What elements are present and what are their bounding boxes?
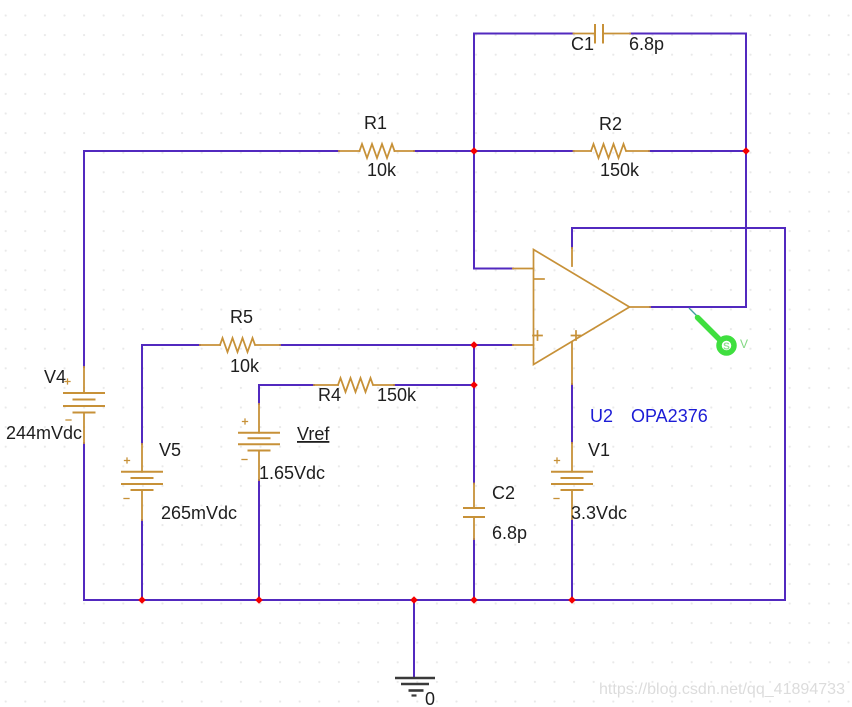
- wire C2 bottom: [473, 539, 475, 600]
- svg-text:10k: 10k: [367, 160, 397, 180]
- svg-text:C1: C1: [571, 34, 594, 54]
- wire R2 left: [474, 150, 574, 152]
- wire left rail upper (R1 left corner down to V4): [83, 151, 85, 367]
- node V5 bottom junction: [138, 596, 146, 604]
- wire R1 left: [84, 150, 339, 152]
- wire left rail lower (V4 to bottom rail): [83, 443, 85, 600]
- wire node 345 down to node 385 down to C2: [473, 345, 475, 484]
- svg-text:150k: 150k: [600, 160, 640, 180]
- svg-text:U2: U2: [590, 406, 613, 426]
- wire op-amp V- down to V1: [571, 384, 573, 443]
- node C2 bottom junction: [470, 596, 478, 604]
- wire R1 right to node: [414, 150, 474, 152]
- resistor R2: [574, 144, 650, 158]
- wire bottom ground rail: [84, 599, 785, 601]
- battery V1: [552, 443, 592, 519]
- resistor R4: [314, 378, 394, 392]
- capacitor C2: [464, 484, 484, 540]
- node V1 bottom junction: [568, 596, 576, 604]
- wire output feedback up to node: [650, 151, 746, 307]
- wire C1 branch right (C1 to node R2 right): [630, 34, 746, 152]
- svg-text:C2: C2: [492, 483, 515, 503]
- node R5 / +in junction: [470, 341, 478, 349]
- wire op-amp V+ to right rail: [572, 228, 785, 600]
- svg-text:R4: R4: [318, 385, 341, 405]
- svg-text:https://blog.csdn.net/qq_41894: https://blog.csdn.net/qq_41894733: [599, 681, 845, 698]
- wire R2 right: [649, 150, 746, 152]
- svg-text:1.65Vdc: 1.65Vdc: [259, 463, 325, 483]
- wire Vref bottom: [258, 480, 260, 600]
- wire C1 branch left (node to C1): [474, 34, 574, 152]
- battery V5: [122, 444, 162, 520]
- node R2 right / feedback junction: [742, 147, 750, 155]
- capacitor C1: [574, 25, 631, 43]
- svg-text:V5: V5: [159, 440, 181, 460]
- svg-text:244mVdc: 244mVdc: [6, 423, 82, 443]
- svg-text:OPA2376: OPA2376: [631, 406, 708, 426]
- svg-text:V: V: [740, 337, 748, 351]
- svg-text:10k: 10k: [230, 356, 260, 376]
- wire V1 bottom: [571, 519, 573, 600]
- svg-text:S: S: [723, 342, 730, 353]
- node ground junction: [410, 596, 418, 604]
- svg-text:R5: R5: [230, 307, 253, 327]
- svg-text:265mVdc: 265mVdc: [161, 503, 237, 523]
- svg-text:0: 0: [425, 689, 435, 707]
- wire node to non-inverting input: [474, 344, 513, 346]
- svg-text:V4: V4: [44, 367, 66, 387]
- op-amp U2: [513, 248, 650, 384]
- svg-text:V1: V1: [588, 440, 610, 460]
- battery V4: [64, 367, 104, 443]
- node R1/R2 junction: [470, 147, 478, 155]
- wire V5 bottom: [141, 520, 143, 600]
- ground: [395, 678, 435, 696]
- wire R5 right to node: [280, 344, 474, 346]
- wire ground stub: [413, 600, 415, 677]
- svg-text:6.8p: 6.8p: [492, 523, 527, 543]
- node Vref bottom junction: [255, 596, 263, 604]
- wire node to inverting input: [474, 151, 513, 269]
- resistor R5: [200, 338, 280, 352]
- svg-text:R1: R1: [364, 113, 387, 133]
- svg-text:150k: 150k: [377, 385, 417, 405]
- wire V5 to R5 left corner: [142, 345, 200, 444]
- voltage probe V: [689, 308, 748, 353]
- svg-text:3.3Vdc: 3.3Vdc: [571, 503, 627, 523]
- svg-text:R2: R2: [599, 114, 622, 134]
- resistor R1: [339, 144, 414, 158]
- svg-text:Vref: Vref: [297, 424, 330, 444]
- node R4 junction: [470, 381, 478, 389]
- battery Vref: [239, 404, 279, 480]
- svg-text:6.8p: 6.8p: [629, 34, 664, 54]
- wire R4 right to node: [394, 384, 474, 386]
- wire R4 left corner to Vref: [259, 385, 314, 404]
